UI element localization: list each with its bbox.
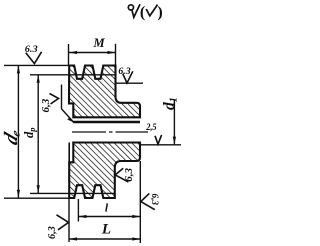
outer face line lower-left [68,143,70,164]
svg-text:6,3: 6,3 [40,98,52,112]
L dimension [68,198,70,242]
svg-text:6.3: 6.3 [118,67,130,77]
l dimension [77,199,79,222]
d_e dimension line (vertical, far left) [17,65,19,197]
svg-text:6,3: 6,3 [47,226,58,239]
svg-text:): ) [157,4,162,21]
bore bottom extension line to the right [140,144,181,146]
d_p top extension line [30,74,115,76]
svg-text:6,3: 6,3 [150,194,160,206]
M dimension [68,44,70,66]
svg-text:(: ( [140,4,145,21]
d_p dimension line [37,75,39,194]
top-right surface finish mark: circle-check + (check) [128,4,157,17]
keyway line [73,116,140,118]
svg-text:2,5: 2,5 [145,122,157,132]
centerline (axis), dash-dot [72,131,148,133]
d_e bottom extension line [4,197,69,199]
d_e top extension line [4,64,69,66]
pulley upper half section (rim with V-grooves, web, hub) [69,66,140,118]
pulley lower half section [69,143,140,199]
svg-text:L: L [101,222,111,238]
roughness extension line right of rim [116,82,144,84]
bore top line (thick) [73,121,140,123]
svg-text:M: M [92,36,105,50]
d_p bottom extension line [30,192,115,194]
d_1 dimension line (right) [173,100,175,145]
